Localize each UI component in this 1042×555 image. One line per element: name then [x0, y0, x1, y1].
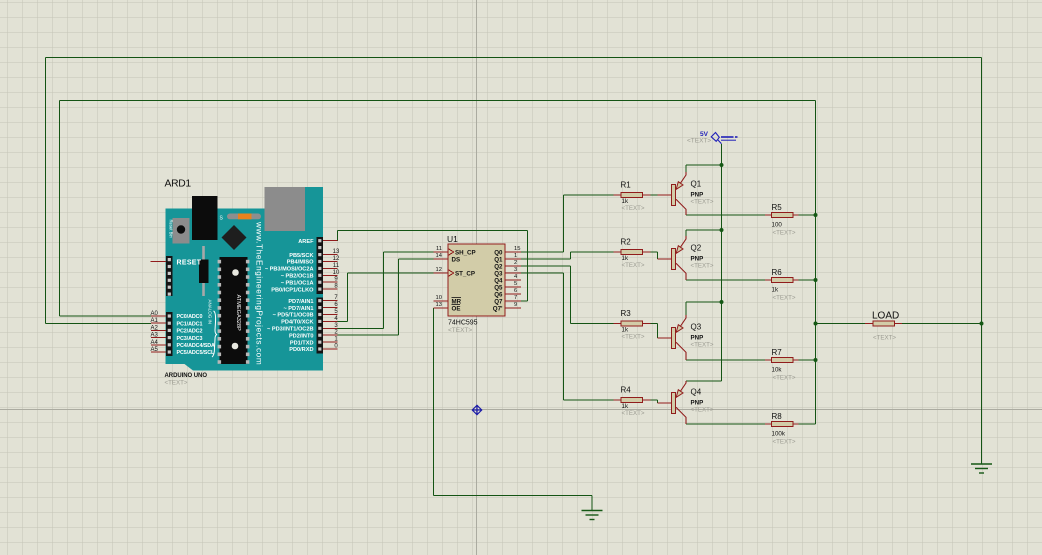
- terminal LOAD: [865, 311, 902, 342]
- svg-text:OE: OE: [452, 305, 461, 312]
- svg-text:PB5/SCK: PB5/SCK: [289, 253, 313, 259]
- transistor Q3: [658, 302, 714, 360]
- svg-text:R1: R1: [621, 181, 632, 190]
- svg-text:PNP: PNP: [691, 192, 704, 199]
- svg-text:~ PD7/AIN1: ~ PD7/AIN1: [283, 306, 313, 312]
- svg-text:U1: U1: [447, 234, 458, 244]
- wire Q1 to R2: [571, 251, 614, 253]
- svg-text:A0: A0: [151, 311, 159, 317]
- board body: [166, 187, 324, 371]
- svg-text:100k: 100k: [772, 431, 786, 438]
- resistor R2: [614, 238, 651, 270]
- wire R3 to Q3 base jog: [651, 323, 658, 325]
- resistor R7: [765, 348, 799, 382]
- wire R7 to bus: [799, 359, 816, 361]
- svg-text:A3: A3: [151, 333, 159, 339]
- wire ground bottom horizontal: [434, 495, 593, 497]
- wire R4 to Q4 base jog: [651, 399, 658, 401]
- U1 pin names: [452, 249, 476, 312]
- svg-text:~ PB1/OC1A: ~ PB1/OC1A: [281, 280, 314, 286]
- svg-text:ARDUINO UNO: ARDUINO UNO: [165, 373, 208, 379]
- svg-text:<TEXT>: <TEXT>: [773, 375, 796, 382]
- svg-text:13: 13: [333, 249, 340, 255]
- svg-text:PC1/ADC1: PC1/ADC1: [177, 321, 203, 327]
- svg-text:Q7': Q7': [493, 305, 503, 312]
- wire Q1 emitter horizontal: [686, 164, 722, 166]
- ground left: [582, 511, 603, 520]
- wire A0 left vertical: [59, 101, 61, 317]
- wire into U1 Q7: [521, 300, 528, 302]
- svg-text:ANALOG IN: ANALOG IN: [208, 300, 213, 325]
- wire top outer horizontal: [46, 57, 982, 59]
- svg-text:<TEXT>: <TEXT>: [691, 342, 714, 349]
- svg-text:1k: 1k: [622, 327, 629, 334]
- cursor crosshair horizontal: [0, 409, 1042, 411]
- wire Q0 to R1: [564, 194, 614, 196]
- svg-text:PB4/MISO: PB4/MISO: [287, 260, 314, 266]
- svg-text:~ PD5/T1/OC0B: ~ PD5/T1/OC0B: [273, 313, 314, 319]
- wire pin3 to SH_CP: [384, 251, 434, 253]
- usb connector: [265, 187, 306, 231]
- svg-text:1k: 1k: [772, 287, 779, 294]
- wire Q4 emitter horizontal: [686, 380, 722, 382]
- wire top inner horizontal: [60, 100, 816, 102]
- black diamond component: [222, 225, 247, 250]
- svg-text:<TEXT>: <TEXT>: [691, 407, 714, 414]
- svg-text:Reset Btn: Reset Btn: [169, 220, 174, 239]
- svg-text:<TEXT>: <TEXT>: [622, 410, 645, 417]
- svg-text:Q7: Q7: [494, 298, 503, 305]
- svg-text:Q2: Q2: [494, 263, 503, 270]
- wire U1 Q3 out: [521, 272, 564, 274]
- svg-text:7: 7: [514, 295, 517, 301]
- wire Q2 to R3: [571, 323, 614, 325]
- resistor R5: [765, 203, 799, 237]
- svg-text:A5: A5: [151, 347, 159, 353]
- svg-text:6: 6: [514, 288, 517, 294]
- wire 5V rail vertical: [721, 144, 723, 381]
- svg-text:100: 100: [772, 222, 783, 229]
- pin RESET stub: [151, 261, 167, 263]
- node R7 / bus: [814, 358, 818, 362]
- svg-text:PNP: PNP: [691, 256, 704, 263]
- svg-text:R5: R5: [772, 203, 783, 212]
- chip pins: [218, 260, 250, 364]
- wire bus to LOAD: [816, 323, 866, 325]
- svg-text:PD7/AIN1: PD7/AIN1: [288, 299, 313, 305]
- svg-text:Q1: Q1: [691, 180, 702, 189]
- svg-text:PD2/INT0: PD2/INT0: [289, 333, 314, 339]
- svg-text:R4: R4: [621, 386, 632, 395]
- svg-text:<TEXT>: <TEXT>: [773, 230, 796, 237]
- svg-text:www.TheEngineeringProjects.com: www.TheEngineeringProjects.com: [255, 221, 264, 365]
- wire R5 to bus: [799, 214, 816, 216]
- svg-text:Q3: Q3: [494, 270, 503, 277]
- U1 pin numbers right: [514, 246, 520, 308]
- cursor crosshair vertical: [476, 0, 478, 555]
- transistor Q4: [658, 381, 714, 424]
- svg-text:Q0: Q0: [494, 249, 503, 256]
- wire right vertical to ground: [981, 58, 983, 465]
- wire pin3 vertical: [383, 252, 385, 328]
- svg-text:3: 3: [514, 267, 517, 273]
- transistor Q1: [658, 165, 714, 215]
- digital header lower: [317, 298, 324, 354]
- wire Q2 emitter horizontal: [686, 229, 722, 231]
- svg-text:<TEXT>: <TEXT>: [873, 335, 896, 342]
- wire A0 horizontal to Arduino A0: [60, 315, 152, 317]
- svg-text:<TEXT>: <TEXT>: [622, 262, 645, 269]
- svg-text:A2: A2: [151, 325, 159, 331]
- digital header upper: [317, 237, 324, 294]
- white pin names right: [265, 239, 314, 353]
- svg-text:14: 14: [436, 253, 443, 259]
- wire pin4 vertical: [347, 273, 349, 321]
- U1 MR OE overlines: [452, 297, 462, 299]
- svg-text:<TEXT>: <TEXT>: [691, 199, 714, 206]
- polyfuse component: [227, 214, 261, 220]
- reset button: [173, 218, 190, 244]
- wire Q3 emitter horizontal: [686, 301, 722, 303]
- svg-text:PC2/ADC2: PC2/ADC2: [177, 329, 203, 335]
- resistor R1: [614, 181, 651, 213]
- analog header: [166, 312, 173, 356]
- svg-text:Q3: Q3: [691, 323, 702, 332]
- svg-text:10: 10: [333, 270, 340, 276]
- svg-text:R7: R7: [772, 348, 783, 357]
- analog pin labels A0-A5: [151, 311, 159, 353]
- svg-text:PC4/ADC4/SDA: PC4/ADC4/SDA: [177, 343, 216, 349]
- svg-text:Q1: Q1: [494, 256, 503, 263]
- U1 clock marks: [449, 249, 454, 255]
- svg-text:11: 11: [333, 263, 340, 269]
- svg-text:AREF: AREF: [298, 239, 314, 245]
- svg-text:Q5: Q5: [494, 284, 503, 291]
- svg-text:Q2: Q2: [691, 244, 702, 253]
- node R5 / bus: [814, 213, 818, 217]
- svg-text:A4: A4: [151, 340, 159, 346]
- wire OE to ground vertical: [433, 308, 435, 496]
- ARDUINO ARD1: [151, 179, 340, 387]
- wire resistor bus vertical: [815, 101, 817, 425]
- reset header: [166, 256, 173, 296]
- svg-text:<TEXT>: <TEXT>: [448, 327, 472, 334]
- svg-text:PNP: PNP: [691, 335, 704, 342]
- svg-text:SH_CP: SH_CP: [455, 249, 476, 256]
- svg-text:~ PB2/OC1B: ~ PB2/OC1B: [281, 274, 314, 280]
- node R6 / bus: [814, 278, 818, 282]
- svg-text:15: 15: [514, 246, 520, 252]
- wire U1 Q2 out: [521, 265, 571, 267]
- wire Q3 to R4: [564, 399, 614, 401]
- svg-text:DS: DS: [452, 256, 461, 263]
- svg-text:1: 1: [514, 253, 517, 259]
- svg-text:1k: 1k: [622, 255, 629, 262]
- svg-text:<TEXT>: <TEXT>: [773, 295, 796, 302]
- wire pin4 horizontal: [338, 320, 348, 322]
- svg-text:~ PD3/INT1/OC2B: ~ PD3/INT1/OC2B: [267, 327, 313, 333]
- wire R8 to bus: [799, 423, 816, 425]
- svg-text:R8: R8: [772, 412, 783, 421]
- svg-text:9: 9: [514, 302, 517, 308]
- resistor R4: [614, 386, 651, 418]
- svg-text:<TEXT>: <TEXT>: [691, 263, 714, 270]
- svg-text:11: 11: [436, 246, 442, 252]
- svg-text:PC5/ADC5/SCL: PC5/ADC5/SCL: [177, 350, 216, 356]
- wire pin4 to ST_CP: [348, 272, 434, 274]
- analog bracket: [212, 311, 217, 357]
- svg-text:<TEXT>: <TEXT>: [622, 334, 645, 341]
- white pin names left: [177, 260, 216, 357]
- wire AREF stub up: [337, 231, 339, 242]
- wire Q0 vertical up: [563, 195, 565, 252]
- ATmega328 chip: [220, 257, 248, 364]
- svg-text:13: 13: [436, 302, 442, 308]
- svg-text:PD0/RXD: PD0/RXD: [289, 347, 313, 353]
- node LOAD / bus: [814, 322, 818, 326]
- svg-text:74HC595: 74HC595: [448, 320, 478, 327]
- analog pin stubs: [151, 316, 166, 352]
- wire ground drop: [591, 496, 593, 511]
- svg-text:ST_CP: ST_CP: [455, 270, 475, 277]
- transistor Q2: [658, 230, 714, 280]
- svg-text:<TEXT>: <TEXT>: [622, 205, 645, 212]
- svg-text:PB0/ICP1/CLKO: PB0/ICP1/CLKO: [271, 287, 314, 293]
- svg-text:1k: 1k: [622, 403, 629, 410]
- svg-text:10k: 10k: [772, 367, 783, 374]
- wire pin2 to DS: [399, 258, 434, 260]
- wire U1 Q0 out: [521, 251, 564, 253]
- wire A1 left vertical: [45, 58, 47, 324]
- U1 left pin stubs: [434, 252, 449, 308]
- svg-text:Q4: Q4: [691, 388, 702, 397]
- digital pin numbers: [333, 249, 340, 349]
- wire pin3 horizontal: [338, 327, 384, 329]
- svg-text:RESET: RESET: [177, 260, 202, 267]
- svg-text:5: 5: [514, 281, 517, 287]
- digital pin stubs: [323, 241, 338, 349]
- origin marker: [472, 405, 481, 414]
- U1 74HC595: [434, 234, 522, 334]
- U1 right pin stubs: [505, 252, 521, 308]
- node LOAD / right rail: [980, 322, 984, 326]
- svg-text:PD4/T0/XCK: PD4/T0/XCK: [281, 320, 313, 326]
- svg-text:ATMEGA328P: ATMEGA328P: [235, 295, 241, 332]
- svg-text:A1: A1: [151, 318, 159, 324]
- svg-text:12: 12: [333, 256, 340, 262]
- wire AREF vertical down to Q7: [527, 231, 529, 302]
- ground right: [971, 464, 992, 473]
- power jack: [192, 196, 218, 240]
- svg-text:R2: R2: [621, 238, 632, 247]
- resistor R6: [765, 268, 799, 302]
- wire A1 horizontal to Arduino A1: [46, 323, 152, 325]
- wire Q1 jog up: [570, 252, 572, 259]
- wire Q2 vertical down: [570, 266, 572, 324]
- wire Q3 collector to R7: [686, 359, 765, 361]
- svg-text:R6: R6: [772, 268, 783, 277]
- wire pin2 vertical: [398, 259, 400, 335]
- svg-text:10: 10: [436, 295, 442, 301]
- node Q2 emitter / 5V rail: [720, 228, 724, 232]
- node Q3 emitter / 5V rail: [720, 300, 724, 304]
- wire AREF horizontal: [338, 230, 528, 232]
- crystal: [202, 246, 205, 296]
- U1 pin numbers left: [436, 246, 443, 308]
- svg-text:PNP: PNP: [691, 400, 704, 407]
- svg-text:1k: 1k: [622, 198, 629, 205]
- svg-text:2: 2: [514, 260, 517, 266]
- svg-text:PC3/ADC3: PC3/ADC3: [177, 336, 203, 342]
- resistor R3: [614, 309, 651, 341]
- wire R1 to Q1 base: [651, 194, 658, 196]
- svg-text:12: 12: [436, 267, 442, 273]
- svg-text:ARD1: ARD1: [165, 179, 192, 190]
- svg-text:Q6: Q6: [494, 291, 503, 298]
- svg-text:R3: R3: [621, 309, 632, 318]
- svg-text:<TEXT>: <TEXT>: [165, 380, 188, 387]
- svg-text:PC0/ADC0: PC0/ADC0: [177, 314, 203, 320]
- wire U1 Q1 out: [521, 258, 571, 260]
- wire LOAD to right rail: [902, 323, 982, 325]
- wire pin2 horizontal: [338, 334, 399, 336]
- wire Q2 collector to R6: [686, 279, 765, 281]
- U1 body: [448, 244, 505, 316]
- svg-text:PD1/TXD: PD1/TXD: [290, 340, 314, 346]
- svg-text:<TEXT>: <TEXT>: [773, 439, 796, 446]
- wire R2 to Q2 base jog: [651, 251, 658, 253]
- wire Q3 vertical down: [563, 273, 565, 400]
- svg-text:LOAD: LOAD: [872, 311, 899, 322]
- wire Q1 collector to R5: [686, 214, 765, 216]
- resistor R8: [765, 412, 799, 446]
- node Q1 emitter / 5V rail: [720, 163, 724, 167]
- power 5V battery symbol: [711, 133, 737, 144]
- svg-text:<TEXT>: <TEXT>: [687, 138, 711, 145]
- wire Q4 collector to R8: [686, 423, 765, 425]
- junction dots: [720, 163, 984, 362]
- wire R6 to bus: [799, 279, 816, 281]
- svg-text:Q4: Q4: [494, 277, 503, 284]
- svg-text:~ PB3/MOSI/OC2A: ~ PB3/MOSI/OC2A: [265, 267, 314, 273]
